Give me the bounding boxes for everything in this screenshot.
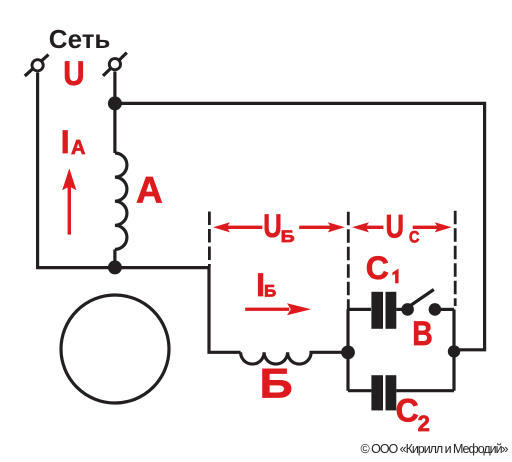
svg-text:© ООО «Кирилл и Мефодий»: © ООО «Кирилл и Мефодий» xyxy=(361,442,509,456)
svg-text:U: U xyxy=(386,208,405,245)
svg-text:В: В xyxy=(412,315,433,353)
svg-text:Сеть: Сеть xyxy=(49,24,111,54)
svg-text:С: С xyxy=(409,228,419,246)
svg-text:I: I xyxy=(61,124,70,160)
svg-text:A: A xyxy=(71,137,85,159)
svg-text:2: 2 xyxy=(418,411,430,436)
svg-text:A: A xyxy=(136,170,163,211)
svg-text:U: U xyxy=(263,208,282,245)
svg-text:Б: Б xyxy=(281,226,295,245)
svg-text:Б: Б xyxy=(264,282,276,301)
svg-text:C: C xyxy=(366,250,389,286)
svg-text:C: C xyxy=(396,392,419,428)
svg-text:U: U xyxy=(63,54,84,92)
svg-text:Б: Б xyxy=(260,360,293,407)
